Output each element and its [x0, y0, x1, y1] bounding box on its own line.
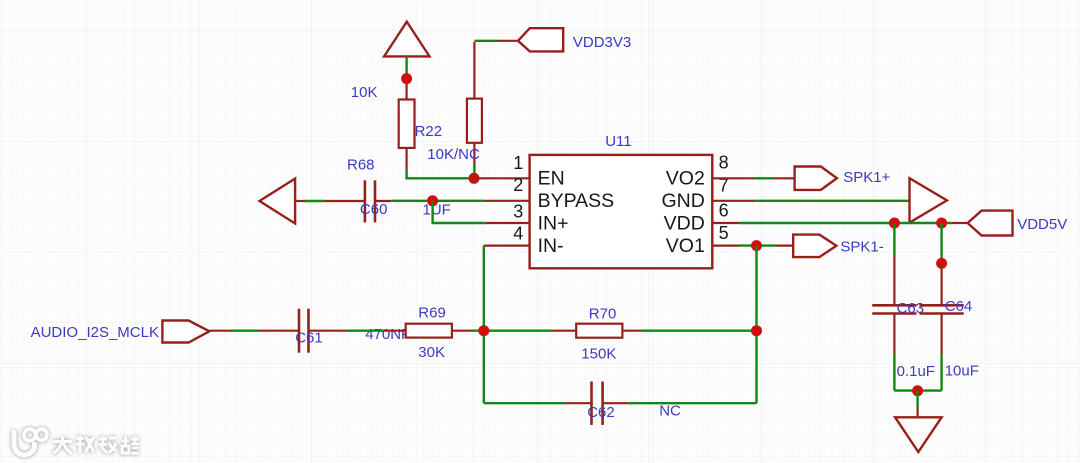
IC U11 body — [530, 155, 713, 268]
port VDD3V3 — [498, 28, 564, 51]
svg-text:1: 1 — [513, 153, 523, 173]
svg-text:VO1: VO1 — [666, 235, 705, 257]
capacitor C63 — [872, 256, 916, 355]
net flag triangle (left, input) — [260, 179, 306, 224]
capacitor C62 — [565, 382, 629, 425]
junction H (VDD node at C64) — [936, 218, 947, 229]
resistor R70 — [553, 324, 641, 338]
wire: VDD down to C63 — [893, 223, 895, 256]
wire: pin4 down left column — [483, 246, 485, 404]
port SPK1+ — [774, 167, 837, 190]
wire: VDD down to C64 — [940, 223, 942, 263]
junction C (C60 node) — [427, 195, 438, 206]
svg-text:C60: C60 — [360, 201, 388, 218]
svg-text:0.1uF: 0.1uF — [897, 363, 935, 380]
capacitor C60 — [324, 180, 391, 222]
svg-text:U11: U11 — [605, 133, 631, 150]
svg-text:R22: R22 — [415, 123, 443, 140]
svg-text:NC: NC — [659, 402, 681, 419]
wire: left flag to C60 — [305, 200, 324, 202]
ground symbol — [895, 407, 942, 453]
svg-text:5: 5 — [719, 223, 729, 243]
wire: pin 3 IN+ stub — [486, 222, 530, 224]
capacitor C61 — [259, 309, 347, 353]
svg-text:R70: R70 — [589, 305, 617, 322]
svg-text:R68: R68 — [347, 156, 375, 173]
capacitor C64 — [919, 263, 963, 354]
wire: C60 to pin2 BYPASS — [391, 200, 484, 202]
wire: C63 bottom to ground row — [893, 354, 895, 391]
svg-text:SPK1-: SPK1- — [840, 238, 883, 255]
svg-text:AUDIO_I2S_MCLK: AUDIO_I2S_MCLK — [31, 324, 159, 341]
wire: node C down to pin3 IN+ — [433, 201, 486, 223]
svg-text:30K: 30K — [418, 344, 445, 361]
wire: pin 8 VO2 stub — [712, 177, 754, 179]
svg-text:GND: GND — [661, 190, 704, 212]
wire: pin 1 EN stub — [474, 177, 530, 179]
svg-text:VDD3V3: VDD3V3 — [573, 34, 631, 51]
wire: C64 bottom to ground row — [940, 354, 942, 391]
junction E (R70 right node) — [751, 325, 762, 336]
power flag triangle (top, net of R22 top) — [384, 22, 429, 57]
wire: port to C61 — [231, 330, 260, 332]
svg-text:C64: C64 — [945, 298, 973, 315]
svg-text:R69: R69 — [418, 305, 446, 322]
svg-text:10K: 10K — [351, 84, 378, 101]
wire: NC resistor bottom to pin1 node — [473, 164, 475, 178]
junction D (IN- node) — [478, 325, 489, 336]
wire: ground node down — [916, 391, 918, 407]
wire: bottom feedback row left — [484, 402, 565, 404]
wire: pin 4 IN- stub — [484, 245, 530, 247]
net flag triangle (right, GND out) — [910, 178, 947, 222]
wire: R22 bottom to pin1 node — [407, 170, 474, 178]
svg-text:C62: C62 — [587, 404, 615, 421]
wire: pin 2 BYPASS stub — [484, 200, 530, 202]
wire: pin 7 GND stub — [712, 200, 754, 202]
junction F (VO1 node) — [751, 240, 762, 251]
svg-text:SPK1+: SPK1+ — [843, 169, 890, 186]
svg-text:VDD: VDD — [664, 212, 705, 234]
svg-text:10K/NC: 10K/NC — [427, 146, 480, 163]
svg-text:2: 2 — [513, 175, 523, 195]
svg-text:EN: EN — [538, 168, 565, 190]
svg-text:6: 6 — [719, 200, 729, 220]
svg-text:BYPASS: BYPASS — [538, 190, 615, 212]
junction A (above R22) — [401, 73, 412, 84]
wire: power flag to R22 top — [405, 56, 407, 72]
wire: GND to right net flag — [755, 200, 910, 202]
wire: VO2 to SPK1+ — [755, 177, 775, 179]
resistor R22 — [399, 72, 415, 170]
wire: C61 to R69 — [347, 330, 384, 332]
wire: VDD to VDD5V port — [739, 222, 952, 224]
port VDD5V — [952, 211, 1013, 236]
wire: pin 6 VDD stub — [712, 222, 739, 224]
svg-text:150K: 150K — [581, 345, 616, 362]
wire: right column VO1 down to C62 row — [755, 246, 757, 404]
svg-text:C61: C61 — [295, 329, 323, 346]
resistor R69 — [384, 324, 473, 338]
wire: VO1 to SPK1- and right column — [739, 244, 776, 246]
wire: R69 to R70 through node D — [473, 330, 553, 332]
svg-text:10uF: 10uF — [945, 362, 979, 379]
svg-text:VDD5V: VDD5V — [1017, 216, 1067, 233]
junction I (C64 pin node) — [936, 258, 947, 269]
wire: ground row — [894, 389, 941, 391]
wire: NC resistor top to VDD3V3 port — [474, 40, 497, 42]
junction G (VDD node at C63) — [889, 218, 900, 229]
svg-text:470NF: 470NF — [365, 326, 410, 343]
watermark logo and text (bottom left) — [14, 429, 139, 455]
junction B (pin1 node) — [469, 173, 480, 184]
svg-text:IN+: IN+ — [538, 212, 569, 234]
svg-text:8: 8 — [719, 152, 729, 172]
wire: bottom feedback row right — [629, 402, 757, 404]
svg-text:VO2: VO2 — [666, 168, 705, 190]
wire: R70 to right column — [641, 330, 757, 332]
junction J (ground node) — [912, 385, 923, 396]
svg-text:IN-: IN- — [538, 235, 564, 257]
port AUDIO_I2S_MCLK — [162, 321, 230, 343]
resistor R23 10K/NC (pull to VDD3V3) — [467, 42, 482, 164]
port SPK1- — [776, 235, 837, 258]
wire: pin 5 VO1 stub — [712, 245, 739, 247]
svg-text:3: 3 — [513, 201, 523, 221]
svg-text:4: 4 — [513, 223, 523, 243]
